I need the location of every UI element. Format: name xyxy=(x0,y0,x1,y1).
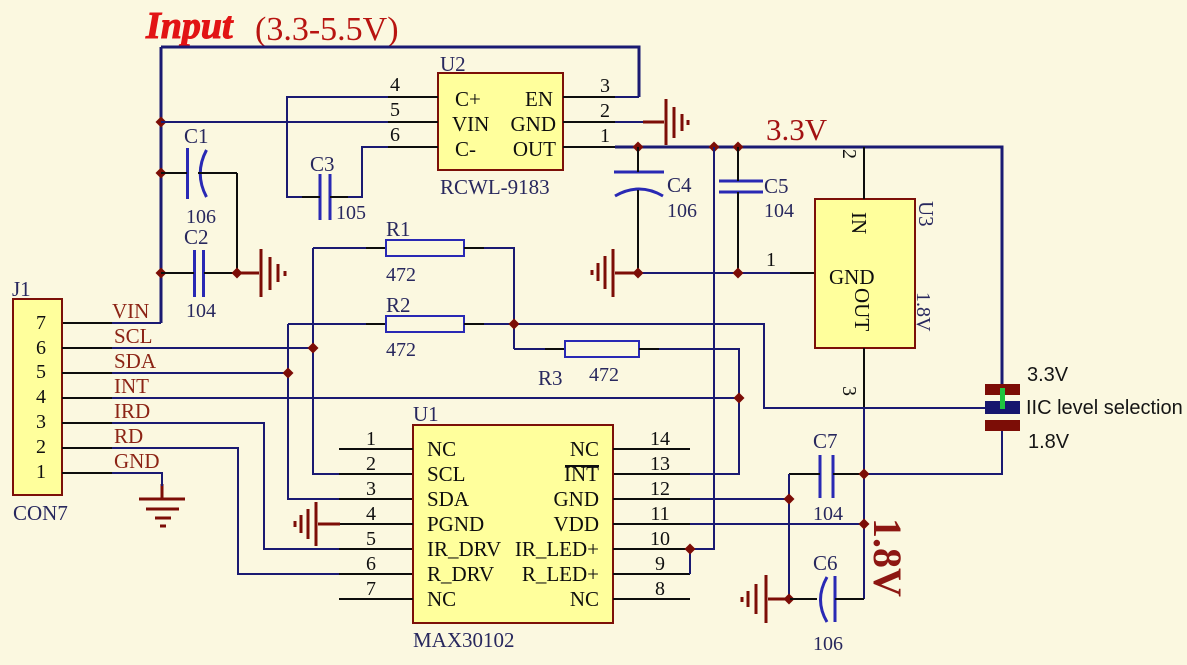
U1 pin 14 stub NC xyxy=(613,448,690,450)
C3 value 105 xyxy=(336,202,366,224)
svg-text:GND: GND xyxy=(829,265,875,289)
svg-text:105: 105 xyxy=(336,202,366,224)
C2 designator xyxy=(184,225,209,249)
junction dot SDA pull-up xyxy=(283,368,294,379)
U1 pin 4 stub PGND xyxy=(339,523,413,525)
C7 value 104 xyxy=(813,503,843,525)
resistor R2 xyxy=(288,316,514,332)
net label GND xyxy=(114,449,160,473)
U1 pin 12 GND wire xyxy=(613,498,789,500)
wire VIN left vertical rail xyxy=(160,47,163,323)
U1 pin 10 IR_LED+ wire xyxy=(613,548,714,550)
svg-text:U1: U1 xyxy=(413,402,439,426)
U1 part name MAX30102 xyxy=(413,628,515,652)
U2 pin name VIN xyxy=(452,112,489,136)
wire GND from J1 pin1 xyxy=(62,473,162,486)
R2 value 472 xyxy=(386,339,416,361)
C6 value 106 xyxy=(813,633,843,655)
net label IRD xyxy=(114,399,150,423)
U2 pin number 2 xyxy=(600,100,610,122)
U2 pin 4 wire to C3 xyxy=(287,97,438,197)
junction dot INT at R3 xyxy=(734,393,745,404)
wire C1/C2 right side vertical xyxy=(236,173,238,273)
svg-text:C-: C- xyxy=(455,137,476,161)
net label VIN xyxy=(112,299,149,323)
svg-text:C2: C2 xyxy=(184,225,209,249)
regulator U2 box xyxy=(438,73,563,170)
net label SDA xyxy=(114,349,157,373)
U3 pin name OUT (rotated) xyxy=(850,288,874,331)
R1 designator xyxy=(386,217,411,241)
wire 3.3V to IR_LED+ vertical xyxy=(690,147,714,549)
svg-text:106: 106 xyxy=(813,633,843,655)
C1 designator xyxy=(184,124,209,148)
U1 left pin names xyxy=(427,437,501,611)
svg-text:R2: R2 xyxy=(386,293,411,317)
svg-text:GND: GND xyxy=(511,112,557,136)
svg-text:SCL: SCL xyxy=(114,324,153,348)
svg-text:PGND: PGND xyxy=(427,512,484,536)
svg-text:NC: NC xyxy=(570,437,599,461)
U2 pin 2 GND wire xyxy=(563,121,644,123)
svg-text:1: 1 xyxy=(766,249,776,271)
jumper shunt green bar xyxy=(1000,388,1005,409)
svg-text:3: 3 xyxy=(600,75,610,97)
J1 pin numbers 7..1 xyxy=(36,312,46,483)
capacitor C2 xyxy=(161,250,237,297)
U1 pin 9 R_LED+ wire xyxy=(613,549,690,574)
svg-text:OUT: OUT xyxy=(513,137,556,161)
svg-text:2: 2 xyxy=(36,436,46,458)
svg-text:5: 5 xyxy=(390,99,400,121)
jumper bottom pad 1.8V xyxy=(985,420,1020,431)
svg-text:13: 13 xyxy=(650,453,670,475)
U2 pin name OUT xyxy=(513,137,556,161)
wire SDA net xyxy=(62,324,413,499)
wire jumper bottom pad to 1.8V net xyxy=(864,431,1002,474)
resistor R3 xyxy=(514,341,739,398)
ground for U1 pin 4 PGND xyxy=(295,502,340,546)
svg-text:12: 12 xyxy=(650,478,670,500)
connector J1 box xyxy=(13,299,62,495)
U3 pin number 2 (rotated) xyxy=(838,149,860,159)
U1 left pin numbers xyxy=(366,428,376,600)
svg-text:C4: C4 xyxy=(667,173,692,197)
U2 pin 6 wire to C3 xyxy=(348,147,438,197)
svg-text:106: 106 xyxy=(667,200,697,222)
svg-text:IR_DRV: IR_DRV xyxy=(427,537,501,561)
C7 designator xyxy=(813,429,838,453)
svg-text:IRD: IRD xyxy=(114,399,150,423)
U2 part name RCWL-9183 xyxy=(440,175,550,199)
U1 right pin numbers xyxy=(650,428,670,600)
svg-text:3.3V: 3.3V xyxy=(766,112,828,147)
svg-text:NC: NC xyxy=(570,587,599,611)
capacitor C3 xyxy=(302,174,348,220)
J1 designator xyxy=(12,277,31,301)
svg-text:RD: RD xyxy=(114,424,143,448)
svg-text:1: 1 xyxy=(366,428,376,450)
wire ground bus to U3 pin 1 xyxy=(638,272,815,274)
title voltage range (3.3-5.5V) xyxy=(255,11,399,48)
U2 pin name C- xyxy=(455,137,476,161)
U2 pin 3 EN wire to top rail xyxy=(563,96,639,98)
IC U1 box xyxy=(413,425,613,623)
label 1.8V at jumper xyxy=(1028,431,1070,453)
U2 pin name GND xyxy=(511,112,557,136)
svg-text:VIN: VIN xyxy=(452,112,489,136)
svg-text:CON7: CON7 xyxy=(13,501,68,525)
svg-text:2: 2 xyxy=(600,100,610,122)
svg-text:MAX30102: MAX30102 xyxy=(413,628,515,652)
junction dot GND at C7 branch xyxy=(784,494,795,505)
svg-text:104: 104 xyxy=(764,200,794,222)
title Input xyxy=(145,5,234,47)
C6 designator xyxy=(813,551,838,575)
resistor R1 xyxy=(313,240,514,349)
svg-text:(3.3-5.5V): (3.3-5.5V) xyxy=(255,11,399,48)
svg-text:7: 7 xyxy=(36,312,46,334)
junction dot C1/C2 right xyxy=(232,268,243,279)
svg-text:R_LED+: R_LED+ xyxy=(522,562,599,586)
svg-text:4: 4 xyxy=(366,503,376,525)
svg-text:C1: C1 xyxy=(184,124,209,148)
R2 designator xyxy=(386,293,411,317)
capacitor C5 xyxy=(719,147,763,273)
junction dot LED supply xyxy=(685,544,696,555)
svg-text:472: 472 xyxy=(589,364,619,386)
U2 pin number 4 xyxy=(390,74,400,96)
svg-text:3: 3 xyxy=(838,386,860,396)
svg-text:9: 9 xyxy=(655,553,665,575)
wire IRD net xyxy=(62,423,413,549)
svg-text:SCL: SCL xyxy=(427,462,466,486)
svg-text:472: 472 xyxy=(386,264,416,286)
ground for U2 pin 2 xyxy=(643,99,688,145)
svg-text:2: 2 xyxy=(838,149,860,159)
ground for J1 pin1 GND xyxy=(139,484,185,526)
svg-text:C3: C3 xyxy=(310,152,335,176)
net label RD xyxy=(114,424,143,448)
svg-text:VDD: VDD xyxy=(554,512,600,536)
svg-text:GND: GND xyxy=(554,487,600,511)
junction dot on VIN rail at C1 xyxy=(156,168,167,179)
C2 value 104 xyxy=(186,300,216,322)
svg-text:RCWL-9183: RCWL-9183 xyxy=(440,175,550,199)
svg-text:5: 5 xyxy=(366,528,376,550)
capacitor C6 xyxy=(789,576,864,622)
svg-text:472: 472 xyxy=(386,339,416,361)
C5 value 104 xyxy=(764,200,794,222)
C1 value 106 xyxy=(186,206,216,228)
U2 pin number 5 xyxy=(390,99,400,121)
power net label 1.8V (rotated red) xyxy=(865,518,910,597)
svg-text:14: 14 xyxy=(650,428,670,450)
ground for C6 xyxy=(742,575,790,623)
svg-text:U3: U3 xyxy=(914,201,938,227)
junction dot pull-up rail xyxy=(509,319,520,330)
ground for C4/C5/U3 xyxy=(592,249,638,297)
svg-text:6: 6 xyxy=(36,337,46,359)
C5 designator xyxy=(764,174,789,198)
svg-text:SDA: SDA xyxy=(427,487,470,511)
U1 INT overline xyxy=(565,465,599,467)
wire SCL net xyxy=(62,248,413,474)
svg-text:104: 104 xyxy=(813,503,843,525)
U3 part value 1.8V (rotated) xyxy=(912,292,934,332)
svg-text:1.8V: 1.8V xyxy=(865,518,910,597)
ground for C2 xyxy=(237,249,285,297)
svg-text:1: 1 xyxy=(600,125,610,147)
junction dot 1.8V at VDD xyxy=(859,519,870,530)
svg-text:Input: Input xyxy=(145,5,234,47)
svg-text:IIC level selection: IIC level selection xyxy=(1026,397,1183,419)
svg-text:104: 104 xyxy=(186,300,216,322)
wire 1.8V net vertical xyxy=(863,407,865,599)
wire pull-up rail to jumper middle pad xyxy=(514,324,985,408)
junction dot ground bus at C4 xyxy=(633,268,644,279)
R1 value 472 xyxy=(386,264,416,286)
U3 pin 2 wire from rail xyxy=(863,147,865,199)
svg-text:GND: GND xyxy=(114,449,160,473)
svg-text:U2: U2 xyxy=(440,52,466,76)
svg-text:C7: C7 xyxy=(813,429,838,453)
svg-text:1.8V: 1.8V xyxy=(1028,431,1070,453)
svg-text:R3: R3 xyxy=(538,366,563,390)
svg-text:C6: C6 xyxy=(813,551,838,575)
net label SCL xyxy=(114,324,153,348)
svg-text:NC: NC xyxy=(427,587,456,611)
svg-text:R1: R1 xyxy=(386,217,411,241)
R3 designator xyxy=(538,366,563,390)
junction dot on VIN rail at C2 xyxy=(156,268,167,279)
U3 pin number 1 xyxy=(766,249,776,271)
svg-text:3: 3 xyxy=(36,411,46,433)
svg-text:3.3V: 3.3V xyxy=(1027,364,1069,386)
svg-text:VIN: VIN xyxy=(112,299,149,323)
U2 pin number 1 xyxy=(600,125,610,147)
U2 designator xyxy=(440,52,466,76)
R3 value 472 xyxy=(589,364,619,386)
svg-text:NC: NC xyxy=(427,437,456,461)
U1 designator xyxy=(413,402,439,426)
svg-text:IR_LED+: IR_LED+ xyxy=(515,537,599,561)
power net label 3.3V xyxy=(766,112,828,147)
U2 pin 5 wire to VIN rail xyxy=(161,121,438,123)
svg-text:C5: C5 xyxy=(764,174,789,198)
junction dot rail at LED supply vertical xyxy=(709,142,720,153)
U2 pin number 6 xyxy=(390,124,400,146)
capacitor C1 xyxy=(161,148,237,199)
capacitor C7 xyxy=(789,455,864,498)
J1 part name CON7 xyxy=(13,501,68,525)
regulator U3 box xyxy=(815,199,915,348)
svg-text:C+: C+ xyxy=(455,87,481,111)
svg-text:3: 3 xyxy=(366,478,376,500)
label IIC level selection xyxy=(1026,397,1183,419)
capacitor C4 xyxy=(614,147,664,273)
svg-text:10: 10 xyxy=(650,528,670,550)
net label INT xyxy=(114,374,149,398)
U3 designator (rotated) xyxy=(914,201,938,227)
svg-text:6: 6 xyxy=(390,124,400,146)
junction dot rail at C4 xyxy=(633,142,644,153)
junction dot 1.8V at C7 xyxy=(859,469,870,480)
svg-text:4: 4 xyxy=(36,386,46,408)
svg-text:EN: EN xyxy=(525,87,553,111)
U3 pin name IN (rotated) xyxy=(847,212,871,234)
U1 pin 7 stub NC xyxy=(339,598,413,600)
C3 designator xyxy=(310,152,335,176)
svg-text:1.8V: 1.8V xyxy=(912,292,934,332)
wire VIN from J1 pin 7 xyxy=(62,322,161,324)
junction dot GND at C6 xyxy=(784,594,795,605)
svg-text:IN: IN xyxy=(847,212,871,234)
svg-text:SDA: SDA xyxy=(114,349,157,373)
svg-text:8: 8 xyxy=(655,578,665,600)
svg-text:4: 4 xyxy=(390,74,400,96)
svg-text:2: 2 xyxy=(366,453,376,475)
svg-text:11: 11 xyxy=(650,503,669,525)
U2 pin number 3 xyxy=(600,75,610,97)
C4 designator xyxy=(667,173,692,197)
svg-text:7: 7 xyxy=(366,578,376,600)
U2 pin name C+ xyxy=(455,87,481,111)
wire RD net xyxy=(62,448,413,574)
jumper middle pad selection xyxy=(985,401,1020,414)
label 3.3V at jumper xyxy=(1027,364,1069,386)
junction dot rail at C5 xyxy=(733,142,744,153)
C4 value 106 xyxy=(667,200,697,222)
U1 pin 8 stub NC xyxy=(613,598,690,600)
U1 right pin names xyxy=(515,437,599,611)
svg-text:OUT: OUT xyxy=(850,288,874,331)
svg-text:5: 5 xyxy=(36,361,46,383)
jumper top pad 3.3V xyxy=(985,384,1020,395)
junction dot SCL pull-up xyxy=(308,343,319,354)
svg-text:J1: J1 xyxy=(12,277,31,301)
U1 pin 11 VDD wire xyxy=(613,523,864,525)
wire input top rail xyxy=(161,47,639,97)
junction dot ground bus at C5 xyxy=(733,268,744,279)
junction dot on VIN rail at U2 pin5 branch xyxy=(156,117,167,128)
U2 pin name EN xyxy=(525,87,553,111)
U3 pin name GND xyxy=(829,265,875,289)
U2 pin 1 OUT wire / 3.3V rail xyxy=(563,147,1002,384)
wire C7/C6 left vertical to ground xyxy=(788,474,790,599)
wire INT net xyxy=(62,398,739,474)
svg-text:R_DRV: R_DRV xyxy=(427,562,494,586)
svg-text:1: 1 xyxy=(36,461,46,483)
U1 pin 1 stub NC xyxy=(339,448,413,450)
U3 pin 3 wire down xyxy=(863,348,865,407)
svg-text:6: 6 xyxy=(366,553,376,575)
svg-text:INT: INT xyxy=(114,374,149,398)
U3 pin number 3 (rotated) xyxy=(838,386,860,396)
